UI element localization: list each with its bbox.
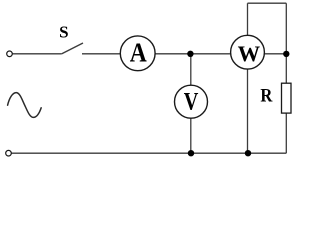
voltmeter V circle <box>175 85 208 118</box>
node D (wattmeter coil bottom junction) <box>245 150 251 156</box>
svg-text:S: S <box>59 23 68 42</box>
wire wattmeter loop top horizontal <box>248 2 287 4</box>
svg-text:A: A <box>130 38 147 68</box>
switch S blade <box>62 43 83 54</box>
node A (voltmeter tap, top) <box>187 51 193 57</box>
wire top segment (terminal to switch) <box>12 53 62 55</box>
wire bottom (return) <box>11 152 286 154</box>
wire right vertical (node B through resistor to bottom wire) <box>285 3 287 153</box>
wire voltmeter branch (node A down to bottom wire) <box>190 54 192 153</box>
svg-text:R: R <box>260 86 272 107</box>
ac source sine symbol <box>8 93 42 118</box>
ammeter A letter <box>130 38 147 68</box>
label S <box>59 23 68 42</box>
wire top segment (switch to right node) <box>82 53 286 55</box>
wattmeter W letter <box>238 41 261 66</box>
node B (right, wattmeter loop + resistor top) <box>283 51 289 57</box>
resistor R body <box>282 83 292 113</box>
node C (voltmeter bottom junction) <box>188 150 194 156</box>
wattmeter W circle <box>231 35 265 69</box>
ammeter A circle <box>120 36 155 71</box>
svg-text:W: W <box>238 41 261 66</box>
voltmeter V letter <box>184 89 199 116</box>
svg-text:V: V <box>184 89 199 116</box>
terminal top-left input <box>7 51 13 57</box>
label R <box>260 86 272 107</box>
terminal bottom-left input <box>6 150 12 156</box>
wire wattmeter voltage-coil vertical (through W circle) <box>247 3 249 153</box>
